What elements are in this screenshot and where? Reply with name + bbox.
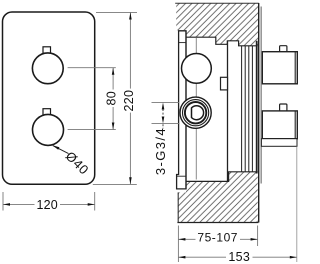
faceplate front view (3, 12, 95, 184)
centerline segments (195, 38, 197, 180)
extension line fitting end (296, 147, 298, 263)
svg-text:75-107: 75-107 (197, 231, 238, 245)
top inlet fitting (262, 46, 297, 84)
svg-text:220: 220 (122, 90, 136, 112)
dimension 80 (105, 68, 119, 130)
valve body top edge profile (186, 37, 258, 46)
port concentric rings (180, 97, 211, 128)
label diameter 40 with leader (52, 145, 92, 177)
dimension 120 (3, 198, 95, 212)
cartridge thick line (256, 41, 258, 174)
valve body right edge (227, 41, 229, 182)
extension line plate right bottom (94, 192, 96, 211)
valve body bottom edge profile (186, 172, 258, 182)
dimension 75-107 (178, 231, 257, 245)
extension line plate bottom (93, 183, 137, 185)
wall back edge line (258, 3, 260, 223)
port dimension arrows (162, 103, 165, 129)
fitting base plate (261, 139, 297, 147)
extension line knob2 center (68, 129, 116, 131)
svg-text:3-G3/4: 3-G3/4 (153, 127, 168, 175)
side knob circle (182, 54, 212, 84)
wall finish gray line (260, 7, 262, 184)
dimension 153 (178, 250, 296, 264)
knob tab top (43, 47, 51, 54)
bottom outlet fitting (262, 104, 297, 139)
knob 1 (32, 53, 63, 84)
extension line wall back (257, 226, 259, 247)
svg-text:80: 80 (105, 91, 119, 106)
port D-shape (192, 106, 204, 120)
svg-text:153: 153 (228, 250, 250, 264)
body small boss (221, 77, 228, 90)
knob tab bottom (43, 109, 51, 115)
svg-text:120: 120 (37, 198, 58, 212)
cartridge stack lines (242, 46, 253, 172)
knob 2 (33, 114, 64, 145)
wall section top hatch (175, 3, 259, 46)
valve body white area side view (186, 37, 258, 181)
port dimension extension lines (152, 101, 180, 103)
extension line knob1 center (68, 67, 116, 69)
extension line plate left bottom (2, 192, 4, 211)
wall section bottom hatch (177, 172, 258, 223)
extension line wall face (177, 226, 179, 263)
faceplate side strip (177, 31, 186, 189)
dimension 220 (122, 12, 136, 184)
extension line plate top (96, 11, 137, 13)
